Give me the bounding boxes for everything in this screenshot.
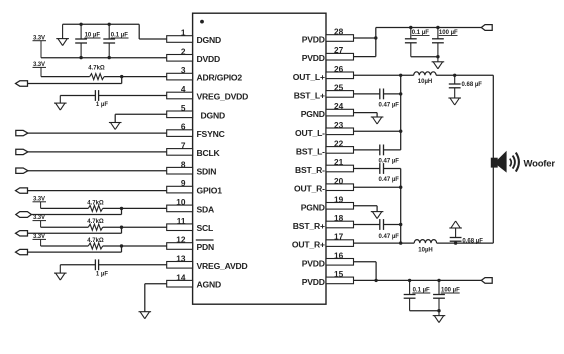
connector BCLK flag [16,149,28,154]
label R1 4.7kOhm [88,66,105,72]
pin 9 box, number and label GPIO1 [167,178,222,195]
svg-text:OUT_R+: OUT_R+ [292,240,325,250]
svg-text:BST_R+: BST_R+ [293,221,325,231]
svg-text:VREG_DVDD: VREG_DVDD [197,92,249,102]
label C11 0.47 uF [379,234,400,240]
svg-text:14: 14 [176,272,186,282]
capacitor C11 0.47 uF [380,219,403,230]
svg-text:1 µF: 1 µF [96,272,108,278]
svg-text:25: 25 [334,83,344,93]
label RPDN 4.7kOhm [87,238,104,244]
svg-text:10µH: 10µH [418,79,432,85]
svg-text:VREG_AVDD: VREG_AVDD [197,261,248,271]
svg-text:28: 28 [334,27,344,37]
wire 3.3V to resistor SDA [41,207,89,209]
svg-text:1: 1 [181,28,186,38]
pin 11 box, number and label SCL [167,216,213,233]
svg-text:1 µF: 1 µF [96,102,108,108]
inductor L2 10 uH [414,240,436,243]
wire pin 16 to pin 15 rail [354,262,378,282]
svg-text:OUT_R-: OUT_R- [294,184,325,194]
ground G7 for C7 [448,98,461,105]
svg-text:PGND: PGND [301,202,325,212]
pin 10 box, number and label SDA [167,197,214,214]
wire vertical OUT_R chain [400,169,402,244]
svg-text:0.68 µF: 0.68 µF [462,239,483,245]
svg-text:4.7kΩ: 4.7kΩ [88,66,105,72]
svg-text:PGND: PGND [301,109,325,119]
wire 3.3V to resistor PDN [41,245,89,247]
wire cap bottoms link [411,55,440,58]
label C14 100 uF [441,288,460,294]
connector PDN flag [16,249,28,254]
resistor RSCL 4.7k [88,224,102,230]
capacitor C5 0.1 uF [405,26,417,57]
wire pin 17 OUT_R+ to inductor [354,241,415,244]
svg-text:SCL: SCL [197,223,214,233]
pin 13 box, number and label VREG_AVDD [167,253,248,270]
label RSDA 4.7kOhm [87,200,104,206]
wire pin 13 to capacitor C4 [99,264,167,266]
wire pin 5 to ground [115,114,167,122]
wire pin 15 PVDD rail [354,279,482,281]
wire pin 20 OUT_R- [354,186,403,189]
pin 14 box, number and label AGND [167,272,221,289]
svg-text:0.47 µF: 0.47 µF [379,102,400,108]
wire 3.3V to resistor R1 [41,76,90,78]
wire R1 to pin 3 with junction [104,75,167,78]
connector PVDD top flag [481,25,492,31]
capacitor C2 0.1 uF [103,23,115,60]
wire pin 14 to ground [145,284,167,312]
wire pin 21 BST_R- to cap C10 [354,168,380,170]
svg-text:ADR/GPIO2: ADR/GPIO2 [197,73,243,83]
svg-text:5: 5 [181,103,186,113]
wire inductor to speaker corner bottom [437,241,494,244]
op-amp U1 IC body (28-pin audio amplifier) [193,13,326,304]
pin 8 box, number and label SDIN [167,159,217,176]
svg-text:BST_L-: BST_L- [296,146,325,156]
wire SDIN connector to pin 8 [28,170,167,172]
ground G2 for C3 [54,96,67,111]
wire cap bottoms link bottom [410,309,441,312]
svg-text:AGND: AGND [197,280,222,290]
svg-text:SDA: SDA [197,204,215,214]
pin 22 box, number and label BST_L- [296,139,354,157]
pin 1 marker dot [200,20,204,24]
wire GPIO1 connector to pin 9 [28,190,167,192]
svg-text:19: 19 [334,194,344,204]
pin 5 box, number and label DGND [167,103,225,120]
wire junction down to SDA connector line [31,208,121,214]
wire resistor to pin 11 with junction [103,226,167,229]
connector ADR/GPIO2 flag [16,81,28,86]
svg-text:12: 12 [176,235,186,245]
ground G1 at rail left end [56,24,69,45]
label C9 0.47 uF [379,158,400,164]
label C10 0.47 uF [379,177,400,183]
wire pin 18 BST_R+ to cap C11 [354,224,380,226]
pin 15 box, number and label PVDD [302,269,354,287]
svg-text:0.47 µF: 0.47 µF [379,177,400,183]
svg-text:10: 10 [176,197,186,207]
pin 6 box, number and label FSYNC [167,122,225,139]
connector PVDD bottom flag [481,278,492,284]
svg-text:FSYNC: FSYNC [197,129,225,139]
speaker LS1 [491,151,519,173]
svg-text:7: 7 [181,141,186,151]
connector SDA flag [16,212,32,218]
label RSCL 4.7kOhm [87,219,104,225]
svg-text:4.7kΩ: 4.7kΩ [87,200,104,206]
label C5 0.1 uF [412,30,430,36]
svg-text:2: 2 [181,46,186,56]
pin 17 box, number and label OUT_R+ [292,232,354,250]
svg-text:17: 17 [334,232,344,242]
connector SCL flag [16,231,28,236]
ground G9 pin 19 [371,212,384,219]
pin 25 box, number and label BST_L+ [294,83,354,101]
svg-text:BST_L+: BST_L+ [294,90,325,100]
label C7 0.68 uF [462,82,483,88]
label L1 10uH [418,79,432,85]
svg-text:11: 11 [177,216,186,226]
svg-text:BST_R-: BST_R- [295,165,325,175]
resistor RPDN 4.7k [88,243,102,249]
wire pin 25 BST_L+ to cap C8 [354,93,380,95]
wire pin 4 to capacitor C3 [99,95,167,97]
pin 20 box, number and label OUT_R- [294,176,353,194]
wire pin 24 to ground [354,113,378,117]
svg-text:0.68 µF: 0.68 µF [462,82,483,88]
svg-text:9: 9 [181,178,186,188]
svg-text:22: 22 [334,139,344,149]
wire vertical OUT_L chain [400,75,402,150]
wire speaker vertical [492,75,494,243]
label C1 10 uF [84,33,100,39]
capacitor C8 0.47 uF [380,89,403,100]
inductor L1 10 uH [414,72,436,75]
label C3 1 uF [96,102,108,108]
wire 3.3V to resistor SCL [41,226,89,228]
ground G6 top PVDD [432,57,445,69]
svg-text:16: 16 [334,250,344,260]
wire resistor to pin 12 with junction [103,244,167,247]
wire junction down to ADR connector line [28,77,122,84]
svg-text:6: 6 [181,122,186,132]
pin 28 box, number and label PVDD [302,27,354,45]
capacitor C12 0.68 uF [450,228,462,243]
capacitor C7 0.68 uF [449,75,461,98]
power symbol 3.3V for SDA pullup [33,196,47,208]
ground G5 AGND [139,312,152,319]
label C6 100 uF [439,30,458,36]
svg-text:10µH: 10µH [418,247,432,253]
wire inductor to speaker corner [436,74,493,77]
label C13 0.1 uF [412,288,430,294]
svg-text:26: 26 [334,64,344,74]
ground G11 bottom PVDD [433,311,446,323]
label C8 0.47 uF [379,102,400,108]
pin 21 box, number and label BST_R- [295,157,354,175]
pin 3 box, number and label ADR/GPIO2 [167,65,243,82]
svg-text:18: 18 [334,213,344,223]
wire junction down to PDN connector line [28,246,122,252]
pin 12 box, number and label PDN [167,235,214,252]
power symbol 3.3V for DVDD [33,35,47,58]
wire pin 22 BST_L- to cap C9 [354,149,380,151]
svg-text:27: 27 [334,45,344,55]
label Woofer [524,158,556,169]
connector GPIO1 flag [16,188,28,193]
wire pin 28 to vertical [354,36,378,39]
pin 1 box, number and label DGND [167,28,221,45]
ground G10 for C12 pointing up [449,221,462,228]
svg-text:24: 24 [334,101,344,111]
svg-text:PVDD: PVDD [302,277,325,287]
ground G3 pin 5 [109,123,122,130]
wire pin 27 to vertical [354,56,376,58]
svg-text:15: 15 [334,269,344,279]
wire resistor to pin 10 with junction [103,207,167,210]
svg-text:PVDD: PVDD [302,35,325,45]
resistor RSDA 4.7k [88,205,102,211]
label L2 10uH [418,247,432,253]
svg-text:3: 3 [181,65,186,75]
pin 4 box, number and label VREG_DVDD [167,84,248,101]
wire 3.3V rail to pin 2 [41,57,167,59]
svg-text:0.47 µF: 0.47 µF [379,234,400,240]
svg-text:4: 4 [181,84,186,94]
svg-text:OUT_L-: OUT_L- [295,128,325,138]
pin 16 box, number and label PVDD [302,250,354,268]
svg-text:DVDD: DVDD [197,54,221,64]
svg-text:23: 23 [334,120,344,130]
wire junction down to SCL connector line [28,227,122,233]
pin 27 box, number and label PVDD [302,45,354,63]
capacitor C1 10 uF [75,23,87,60]
svg-text:21: 21 [334,157,344,167]
capacitor C14 100 uF [433,279,445,311]
svg-text:Woofer: Woofer [524,158,556,169]
wire pin 23 OUT_L- [354,130,403,133]
svg-text:SDIN: SDIN [197,167,217,177]
svg-text:8: 8 [181,159,186,169]
capacitor C10 0.47 uF [380,163,401,174]
capacitor C6 100 uF [432,26,444,57]
svg-text:PDN: PDN [197,242,215,252]
svg-text:20: 20 [334,176,344,186]
svg-text:OUT_L+: OUT_L+ [293,72,325,82]
connector FSYNC flag [16,130,28,135]
label C4 1 uF [96,272,108,278]
connector SDIN flag [16,168,28,173]
label C12 0.68 uF [462,239,483,245]
wire vertical up to PVDD rail [376,28,482,57]
wire pin1 to top rail [63,24,167,39]
svg-text:BCLK: BCLK [197,148,221,158]
label C2 0.1 uF [111,33,129,39]
resistor R1 4.7k [90,74,104,80]
wire FSYNC connector to pin 6 [28,132,167,134]
capacitor C4 1 uF [60,259,98,270]
svg-text:0.47 µF: 0.47 µF [379,158,400,164]
pin 2 box, number and label DVDD [167,46,220,63]
svg-text:PVDD: PVDD [302,258,325,268]
power symbol 3.3V for SCL pullup [33,215,47,227]
capacitor C3 1 uF [60,90,98,101]
power symbol 3.3V for ADR pullup [33,62,47,77]
pin 24 box, number and label PGND [301,101,354,119]
pin 23 box, number and label OUT_L- [295,120,354,138]
ground G4 for C4 [54,265,67,280]
pin 18 box, number and label BST_R+ [293,213,354,231]
svg-text:DGND: DGND [201,110,226,120]
power symbol 3.3V for PDN pullup [33,234,47,246]
wire BCLK connector to pin 7 [28,151,167,153]
pin 26 box, number and label OUT_L+ [293,64,354,82]
svg-text:PVDD: PVDD [302,53,325,63]
svg-text:GPIO1: GPIO1 [197,186,223,196]
wire pin 19 to ground [354,206,378,212]
pin 19 box, number and label PGND [301,194,354,212]
svg-text:13: 13 [176,253,186,263]
svg-text:4.7kΩ: 4.7kΩ [87,238,104,244]
capacitor C9 0.47 uF [380,145,401,156]
pin 7 box, number and label BCLK [167,141,221,158]
wire pin 26 OUT_L+ to inductor [354,74,414,77]
svg-text:4.7kΩ: 4.7kΩ [87,219,104,225]
capacitor C13 0.1 uF [404,279,416,311]
ground G8 pin 24 [371,117,384,124]
svg-text:DGND: DGND [197,35,222,45]
